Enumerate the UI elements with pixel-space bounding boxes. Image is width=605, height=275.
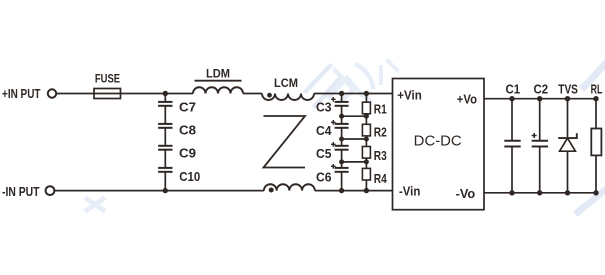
svg-text:TVS: TVS bbox=[558, 81, 578, 96]
capacitor C8 bbox=[158, 124, 172, 128]
polarity dot LCM bottom bbox=[269, 188, 274, 193]
svg-text:C9: C9 bbox=[179, 146, 196, 161]
link wire node F to resistor chain bbox=[342, 138, 367, 140]
wire C3 to node E bbox=[341, 106, 343, 124]
resistor R4 bbox=[362, 168, 370, 180]
junction node G2 bbox=[364, 159, 369, 164]
wire C5 to node G bbox=[341, 150, 343, 168]
junction node H bottom of C6 bbox=[339, 188, 344, 193]
wire C4 to node F bbox=[341, 128, 343, 146]
wire output top rail bbox=[484, 98, 596, 100]
resistor R1 bbox=[362, 102, 370, 114]
junction top of C1 bbox=[509, 96, 514, 101]
junction bottom of C1 bbox=[509, 190, 514, 195]
wire R2 to R3 bbox=[365, 136, 367, 147]
capacitor C7 bbox=[158, 94, 172, 106]
wire bottom rail right of choke bbox=[315, 190, 393, 192]
plus mark C4 bbox=[331, 120, 336, 125]
input terminal minus bbox=[46, 186, 55, 195]
svg-text:R2: R2 bbox=[374, 125, 387, 140]
capacitor C3 bbox=[335, 94, 349, 106]
junction node A top of C7 bbox=[163, 91, 168, 96]
polarity dot LCM top bbox=[267, 93, 272, 98]
wire C8 to C9 bbox=[164, 128, 166, 146]
core symbol Z of LCM bbox=[264, 116, 306, 168]
svg-text:+IN PUT: +IN PUT bbox=[2, 86, 41, 101]
svg-text:-Vo: -Vo bbox=[456, 187, 476, 201]
wire node D to DC-DC +Vin bbox=[366, 93, 392, 95]
svg-text:C4: C4 bbox=[316, 123, 332, 138]
junction bottom of C2 bbox=[537, 190, 542, 195]
junction top of TVS bbox=[565, 96, 570, 101]
diode TVS bbox=[558, 99, 577, 193]
capacitor C10 bbox=[158, 168, 172, 172]
svg-text:C8: C8 bbox=[179, 123, 196, 138]
fuse FUSE bbox=[94, 89, 121, 99]
inductor LDM bbox=[193, 87, 243, 93]
plus mark C2 bbox=[532, 133, 537, 138]
link wire node G to resistor chain bbox=[342, 161, 367, 163]
wire R4 to bottom rail bbox=[365, 180, 367, 191]
wire C7 to C8 bbox=[164, 106, 166, 124]
junction bottom of TVS bbox=[565, 190, 570, 195]
link wire node E to resistor chain bbox=[342, 115, 367, 117]
svg-text:C3: C3 bbox=[316, 99, 332, 114]
svg-text:DC-DC: DC-DC bbox=[414, 134, 462, 150]
wire C6 to bottom rail bbox=[341, 172, 343, 191]
svg-text:R1: R1 bbox=[374, 102, 387, 117]
svg-text:+Vin: +Vin bbox=[397, 89, 422, 103]
junction node B bottom of C10 bbox=[163, 188, 168, 193]
svg-text:FUSE: FUSE bbox=[95, 74, 120, 86]
wire R1 to R2 bbox=[365, 114, 367, 125]
plus mark C6 bbox=[331, 164, 336, 169]
input terminal plus bbox=[48, 89, 56, 97]
converter U1 DC-DC box bbox=[393, 79, 485, 210]
wire C9 to C10 bbox=[164, 150, 166, 168]
choke LCM bottom winding bbox=[264, 184, 315, 190]
svg-text:R4: R4 bbox=[374, 171, 388, 186]
wire LDM to LCM bbox=[243, 93, 262, 95]
junction node C top of C3 bbox=[339, 91, 344, 96]
svg-text:LCM: LCM bbox=[274, 78, 298, 90]
junction node D top of R1 bbox=[364, 91, 369, 96]
svg-text:C7: C7 bbox=[179, 100, 196, 115]
svg-text:C2: C2 bbox=[534, 81, 549, 96]
wire node C to node D bbox=[342, 93, 367, 95]
resistor RL bbox=[591, 99, 601, 193]
junction node E2 bbox=[364, 114, 369, 119]
wire node A to LDM bbox=[165, 93, 193, 95]
junction node E bbox=[339, 114, 344, 119]
wire top rail to R1 bbox=[365, 94, 367, 103]
svg-text:LDM: LDM bbox=[206, 68, 230, 80]
capacitor C2 bbox=[532, 99, 548, 193]
svg-text:C6: C6 bbox=[316, 170, 332, 185]
capacitor C9 bbox=[158, 146, 172, 150]
junction node G bbox=[339, 159, 344, 164]
svg-text:C1: C1 bbox=[506, 81, 521, 96]
wire R3 to R4 bbox=[365, 158, 367, 168]
junction top of C2 bbox=[537, 96, 542, 101]
wire terminal to fuse bbox=[56, 93, 94, 95]
junction node F2 bbox=[364, 137, 369, 142]
svg-text:RL: RL bbox=[591, 81, 603, 96]
label LDM bbox=[195, 68, 242, 80]
svg-text:R3: R3 bbox=[374, 148, 387, 163]
svg-text:-IN PUT: -IN PUT bbox=[2, 184, 40, 199]
junction bottom of RL bbox=[593, 190, 598, 195]
junction node F bbox=[339, 137, 344, 142]
wire LCM to node C bbox=[314, 93, 342, 95]
wire fuse to node A bbox=[121, 93, 166, 95]
resistor R2 bbox=[362, 124, 370, 136]
wire bottom rail left bbox=[55, 190, 264, 192]
capacitor C6 bbox=[335, 168, 349, 172]
resistor R3 bbox=[362, 147, 370, 159]
svg-text:+Vo: +Vo bbox=[457, 92, 478, 106]
capacitor C1 bbox=[504, 99, 520, 193]
junction node I bottom of R4 bbox=[364, 188, 369, 193]
wire output bottom rail bbox=[484, 192, 596, 194]
capacitor C5 bbox=[335, 146, 349, 150]
wire C10 to bottom rail bbox=[164, 172, 166, 191]
svg-text:-Vin: -Vin bbox=[399, 184, 420, 198]
capacitor C4 bbox=[335, 124, 349, 128]
svg-text:C5: C5 bbox=[316, 146, 332, 161]
choke LCM top winding bbox=[262, 94, 314, 101]
plus mark C5 bbox=[331, 142, 336, 147]
svg-text:C10: C10 bbox=[179, 169, 200, 184]
junction top of RL bbox=[593, 96, 598, 101]
plus mark C3 bbox=[331, 97, 336, 102]
